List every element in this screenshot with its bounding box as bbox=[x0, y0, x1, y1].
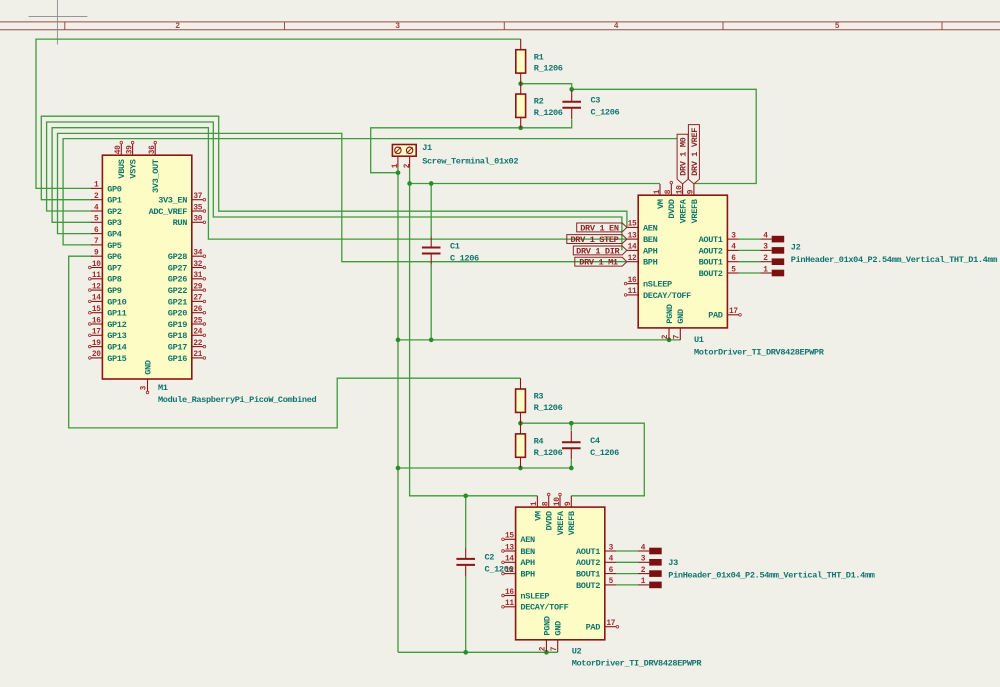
svg-text:14: 14 bbox=[628, 244, 637, 252]
svg-text:AEN: AEN bbox=[520, 535, 535, 545]
svg-text:10: 10 bbox=[92, 261, 101, 269]
svg-text:26: 26 bbox=[193, 306, 202, 314]
svg-text:R_1206: R_1206 bbox=[534, 448, 563, 458]
svg-text:nSLEEP: nSLEEP bbox=[520, 591, 549, 601]
resistor R2 bbox=[516, 84, 563, 128]
junction bbox=[463, 650, 468, 655]
svg-text:BOUT1: BOUT1 bbox=[576, 570, 600, 580]
wire GP2 to U1 APH bbox=[47, 122, 622, 250]
wire R3-R4 junction to U2 VREFB bbox=[521, 423, 645, 496]
svg-text:12: 12 bbox=[628, 255, 637, 263]
svg-text:DVDD: DVDD bbox=[667, 199, 677, 218]
svg-text:RUN: RUN bbox=[173, 218, 188, 228]
net label DRV 1 DIR bbox=[573, 246, 627, 256]
svg-text:6: 6 bbox=[609, 567, 614, 575]
wire GP3 to U1 BEN bbox=[52, 128, 627, 239]
svg-text:GP13: GP13 bbox=[107, 331, 126, 341]
svg-text:VREFA: VREFA bbox=[679, 198, 689, 223]
svg-text:7: 7 bbox=[674, 334, 682, 339]
svg-text:GP9: GP9 bbox=[107, 286, 122, 296]
svg-text:4: 4 bbox=[731, 244, 736, 252]
svg-text:VSYS: VSYS bbox=[129, 159, 139, 178]
wire U1 to J2 bbox=[739, 261, 761, 263]
connector J3 pin header bbox=[638, 544, 875, 588]
svg-text:J1: J1 bbox=[422, 143, 432, 153]
svg-text:PAD: PAD bbox=[708, 311, 723, 321]
resistor R4 bbox=[516, 423, 563, 468]
svg-text:5: 5 bbox=[835, 22, 840, 31]
svg-text:16: 16 bbox=[92, 317, 101, 325]
net label DRV 1 EN bbox=[577, 223, 627, 233]
wire J1 pin2 stub bbox=[409, 168, 411, 184]
wire GP6 to R3 top bbox=[69, 256, 521, 428]
svg-text:7: 7 bbox=[94, 238, 99, 246]
svg-text:GP10: GP10 bbox=[107, 297, 126, 307]
svg-text:GND: GND bbox=[143, 360, 153, 375]
svg-text:2: 2 bbox=[404, 163, 412, 168]
svg-text:24: 24 bbox=[193, 329, 202, 337]
junction bbox=[518, 466, 523, 471]
svg-text:9: 9 bbox=[94, 250, 99, 258]
wire GND to U1 PGND GND bbox=[398, 339, 680, 341]
svg-text:VM: VM bbox=[533, 511, 543, 521]
svg-text:10: 10 bbox=[676, 185, 684, 194]
svg-text:GP15: GP15 bbox=[107, 354, 126, 364]
svg-text:12: 12 bbox=[92, 283, 101, 291]
junction bbox=[569, 421, 574, 426]
svg-text:GP17: GP17 bbox=[168, 343, 187, 353]
svg-text:15: 15 bbox=[628, 221, 637, 229]
svg-text:19: 19 bbox=[92, 340, 101, 348]
svg-text:DVDD: DVDD bbox=[545, 511, 555, 530]
svg-text:10: 10 bbox=[554, 497, 562, 506]
wire GP0 to R1 top bbox=[36, 39, 521, 188]
svg-text:31: 31 bbox=[193, 272, 202, 280]
svg-text:2: 2 bbox=[662, 334, 670, 339]
svg-text:GP8: GP8 bbox=[107, 275, 122, 285]
svg-text:16: 16 bbox=[505, 589, 514, 597]
wire R2 bottom to J1 pin1 bbox=[371, 119, 572, 172]
svg-text:AOUT1: AOUT1 bbox=[576, 547, 600, 557]
svg-text:GP26: GP26 bbox=[168, 275, 187, 285]
svg-text:BPH: BPH bbox=[643, 258, 658, 268]
capacitor C2 bbox=[456, 548, 513, 577]
svg-text:GND: GND bbox=[554, 621, 564, 636]
svg-text:VBUS: VBUS bbox=[117, 159, 127, 178]
svg-text:3V3_OUT: 3V3_OUT bbox=[151, 159, 161, 193]
svg-text:R1: R1 bbox=[534, 52, 544, 62]
svg-text:12: 12 bbox=[505, 567, 514, 575]
wire C2 bottom to GND bbox=[465, 576, 467, 652]
svg-text:R2: R2 bbox=[534, 97, 544, 107]
svg-text:4: 4 bbox=[641, 544, 646, 552]
wire GP1 to U1 AEN bbox=[41, 116, 627, 227]
wire U2 to J3 bbox=[616, 561, 638, 563]
svg-text:GP5: GP5 bbox=[107, 241, 122, 251]
svg-text:M1: M1 bbox=[158, 383, 168, 393]
svg-text:GP18: GP18 bbox=[168, 331, 187, 341]
junction bbox=[429, 338, 434, 343]
svg-text:34: 34 bbox=[193, 250, 202, 258]
svg-text:GP2: GP2 bbox=[107, 207, 122, 217]
svg-text:nSLEEP: nSLEEP bbox=[643, 280, 672, 290]
wire to C1 top bbox=[430, 184, 432, 237]
svg-text:AEN: AEN bbox=[643, 223, 658, 233]
svg-text:5: 5 bbox=[731, 266, 736, 274]
wire GP5 to DRV 1 M0 label bbox=[63, 139, 677, 245]
net label DRV 1 VREF bbox=[688, 125, 699, 184]
net label DRV 1 M1 bbox=[575, 257, 627, 267]
svg-text:6: 6 bbox=[94, 227, 99, 235]
svg-text:32: 32 bbox=[193, 261, 202, 269]
svg-text:3: 3 bbox=[641, 556, 646, 564]
svg-text:2: 2 bbox=[540, 646, 548, 651]
svg-text:GP11: GP11 bbox=[107, 309, 126, 319]
svg-text:VREFB: VREFB bbox=[690, 199, 700, 223]
svg-text:4: 4 bbox=[763, 232, 768, 240]
svg-text:8: 8 bbox=[665, 189, 673, 194]
svg-text:3: 3 bbox=[763, 244, 768, 252]
svg-text:R3: R3 bbox=[534, 392, 544, 402]
wire U1 to J2 bbox=[739, 272, 761, 274]
svg-text:DRV 1 M1: DRV 1 M1 bbox=[579, 258, 618, 268]
resistor R1 bbox=[516, 39, 563, 84]
svg-text:U2: U2 bbox=[572, 646, 582, 656]
svg-text:BOUT2: BOUT2 bbox=[699, 269, 723, 279]
svg-text:1: 1 bbox=[654, 189, 662, 194]
svg-text:27: 27 bbox=[193, 295, 202, 303]
svg-text:DRV 1 EN: DRV 1 EN bbox=[580, 223, 619, 233]
svg-text:DRV 1 M0: DRV 1 M0 bbox=[679, 137, 689, 176]
svg-text:GP6: GP6 bbox=[107, 252, 122, 262]
wire J1 pin1 stub bbox=[397, 168, 399, 173]
svg-text:3: 3 bbox=[609, 544, 614, 552]
wire U2 to J3 bbox=[616, 584, 638, 586]
wire GND2 to R4 C4 bottom bbox=[398, 467, 571, 469]
svg-text:AOUT2: AOUT2 bbox=[576, 558, 600, 568]
svg-text:3V3_EN: 3V3_EN bbox=[158, 196, 187, 206]
svg-text:DRV 1 DIR: DRV 1 DIR bbox=[576, 246, 620, 256]
svg-text:C3: C3 bbox=[591, 96, 601, 106]
svg-text:C_1206: C_1206 bbox=[450, 253, 479, 263]
svg-text:29: 29 bbox=[193, 283, 202, 291]
svg-text:17: 17 bbox=[606, 620, 615, 628]
svg-text:13: 13 bbox=[628, 232, 637, 240]
svg-text:1: 1 bbox=[763, 266, 768, 274]
svg-text:9: 9 bbox=[688, 189, 696, 194]
junction bbox=[569, 87, 574, 92]
svg-text:20: 20 bbox=[92, 351, 101, 359]
junction bbox=[463, 493, 468, 498]
svg-text:GP7: GP7 bbox=[107, 263, 122, 273]
svg-text:30: 30 bbox=[193, 216, 202, 224]
svg-text:APH: APH bbox=[643, 246, 658, 256]
svg-text:15: 15 bbox=[505, 533, 514, 541]
svg-text:GP20: GP20 bbox=[168, 309, 187, 319]
svg-text:GP19: GP19 bbox=[168, 320, 187, 330]
svg-text:14: 14 bbox=[92, 295, 101, 303]
svg-text:BOUT1: BOUT1 bbox=[699, 258, 723, 268]
net label DRV 1 STEP bbox=[567, 235, 627, 245]
svg-text:R4: R4 bbox=[534, 437, 544, 447]
svg-text:11: 11 bbox=[505, 600, 514, 608]
capacitor C4 bbox=[562, 431, 619, 460]
svg-text:GP4: GP4 bbox=[107, 230, 122, 240]
svg-text:GP14: GP14 bbox=[107, 343, 126, 353]
svg-text:VM: VM bbox=[656, 199, 666, 209]
svg-text:3: 3 bbox=[395, 22, 400, 31]
svg-text:4: 4 bbox=[614, 22, 619, 31]
junction bbox=[667, 338, 672, 343]
wire U2 to J3 bbox=[616, 550, 638, 552]
svg-text:35: 35 bbox=[193, 204, 202, 212]
wire VM rail to U2 VM bbox=[410, 184, 538, 496]
svg-text:15: 15 bbox=[92, 306, 101, 314]
junction bbox=[518, 81, 523, 86]
svg-text:GP16: GP16 bbox=[168, 354, 187, 364]
junction bbox=[429, 181, 434, 186]
svg-text:Module_RaspberryPi_PicoW_Combi: Module_RaspberryPi_PicoW_Combined bbox=[158, 395, 317, 405]
junction bbox=[396, 466, 401, 471]
svg-text:GP22: GP22 bbox=[168, 286, 187, 296]
svg-text:GP1: GP1 bbox=[107, 196, 122, 206]
svg-text:PinHeader_01x04_P2.54mm_Vertic: PinHeader_01x04_P2.54mm_Vertical_THT_D1.… bbox=[791, 255, 997, 265]
svg-text:MotorDriver_TI_DRV8428EPWPR: MotorDriver_TI_DRV8428EPWPR bbox=[694, 347, 825, 357]
svg-text:PAD: PAD bbox=[586, 623, 601, 633]
svg-text:2: 2 bbox=[94, 193, 99, 201]
svg-text:BEN: BEN bbox=[643, 235, 658, 245]
svg-text:J3: J3 bbox=[668, 558, 678, 568]
svg-text:1: 1 bbox=[392, 163, 400, 168]
resistor R3 bbox=[516, 378, 563, 423]
svg-text:1: 1 bbox=[531, 501, 539, 506]
svg-text:14: 14 bbox=[505, 556, 514, 564]
svg-text:J2: J2 bbox=[791, 243, 801, 253]
wire J1 pin2 to U1 VM bbox=[410, 183, 660, 185]
op-amp U2 motor driver DRV8428 bbox=[502, 493, 703, 668]
wire C1 bottom to GND bbox=[430, 265, 432, 340]
svg-text:GP21: GP21 bbox=[168, 297, 187, 307]
svg-text:21: 21 bbox=[193, 351, 202, 359]
svg-text:GND: GND bbox=[676, 309, 686, 324]
wire U2 to J3 bbox=[616, 573, 638, 575]
svg-text:40: 40 bbox=[115, 145, 123, 154]
wire to C2 top bbox=[465, 496, 467, 548]
svg-text:PinHeader_01x04_P2.54mm_Vertic: PinHeader_01x04_P2.54mm_Vertical_THT_D1.… bbox=[668, 570, 874, 580]
svg-text:GP12: GP12 bbox=[107, 320, 126, 330]
op-amp U1 motor driver DRV8428 bbox=[624, 181, 824, 357]
svg-text:ADC_VREF: ADC_VREF bbox=[149, 207, 188, 217]
svg-text:16: 16 bbox=[628, 277, 637, 285]
wire GND vertical rail bbox=[397, 173, 399, 653]
svg-text:2: 2 bbox=[175, 22, 180, 31]
svg-text:7: 7 bbox=[551, 646, 559, 651]
svg-text:8: 8 bbox=[543, 501, 551, 506]
svg-text:C_1206: C_1206 bbox=[591, 108, 620, 118]
svg-text:R_1206: R_1206 bbox=[534, 403, 563, 413]
svg-text:DRV 1 VREF: DRV 1 VREF bbox=[690, 128, 700, 176]
wire GND to U2 PGND GND bbox=[398, 651, 558, 653]
svg-text:AOUT2: AOUT2 bbox=[699, 246, 723, 256]
svg-text:BPH: BPH bbox=[520, 570, 535, 580]
svg-text:VREFB: VREFB bbox=[567, 511, 577, 535]
svg-text:2: 2 bbox=[763, 255, 768, 263]
svg-text:MotorDriver_TI_DRV8428EPWPR: MotorDriver_TI_DRV8428EPWPR bbox=[572, 659, 703, 669]
svg-text:13: 13 bbox=[505, 544, 514, 552]
svg-text:DECAY/TOFF: DECAY/TOFF bbox=[520, 603, 568, 613]
svg-text:U1: U1 bbox=[694, 335, 704, 345]
wire U1 to J2 bbox=[739, 238, 761, 240]
wire GP4 to U1 BPH bbox=[58, 133, 628, 261]
cursor crosshair bbox=[29, 0, 88, 45]
svg-text:Screw_Terminal_01x02: Screw_Terminal_01x02 bbox=[422, 156, 518, 166]
svg-text:GP3: GP3 bbox=[107, 218, 122, 228]
wire U1 to J2 bbox=[739, 249, 761, 251]
svg-text:4: 4 bbox=[94, 204, 99, 212]
svg-text:PGND: PGND bbox=[665, 304, 675, 323]
module M1 Raspberry Pi Pico W bbox=[89, 141, 317, 405]
svg-text:C4: C4 bbox=[590, 436, 600, 446]
junction bbox=[569, 466, 574, 471]
svg-text:PGND: PGND bbox=[542, 616, 552, 635]
svg-text:R_1206: R_1206 bbox=[534, 64, 563, 74]
svg-text:GP0: GP0 bbox=[107, 184, 122, 194]
wire C4 bottom to GND bbox=[570, 460, 572, 468]
svg-text:5: 5 bbox=[94, 216, 99, 224]
connector J2 pin header bbox=[760, 232, 997, 276]
svg-text:2: 2 bbox=[641, 567, 646, 575]
svg-text:4: 4 bbox=[609, 556, 614, 564]
svg-text:6: 6 bbox=[731, 255, 736, 263]
svg-text:C_1206: C_1206 bbox=[590, 448, 619, 458]
svg-text:BEN: BEN bbox=[520, 547, 535, 557]
svg-text:3: 3 bbox=[141, 385, 149, 390]
svg-text:C1: C1 bbox=[450, 241, 460, 251]
junction bbox=[407, 181, 412, 186]
svg-text:BOUT2: BOUT2 bbox=[576, 581, 600, 591]
junction bbox=[396, 170, 401, 175]
svg-text:25: 25 bbox=[193, 317, 202, 325]
svg-text:11: 11 bbox=[628, 288, 637, 296]
svg-text:3: 3 bbox=[731, 232, 736, 240]
svg-text:17: 17 bbox=[729, 308, 738, 316]
svg-text:1: 1 bbox=[641, 578, 646, 586]
svg-text:VREFA: VREFA bbox=[556, 510, 566, 535]
svg-text:39: 39 bbox=[126, 145, 134, 154]
svg-text:R_1206: R_1206 bbox=[534, 108, 563, 118]
svg-text:DRV 1 STEP: DRV 1 STEP bbox=[571, 235, 619, 245]
svg-text:DECAY/TOFF: DECAY/TOFF bbox=[643, 291, 691, 301]
wire to C4 top bbox=[570, 423, 572, 431]
svg-text:AOUT1: AOUT1 bbox=[699, 235, 723, 245]
wire VREF1 net to U1 VREFB bbox=[572, 89, 757, 183]
connector J1 screw terminal bbox=[392, 143, 518, 168]
svg-text:1: 1 bbox=[94, 182, 99, 190]
junction bbox=[518, 421, 523, 426]
svg-text:17: 17 bbox=[92, 329, 101, 337]
svg-text:C2: C2 bbox=[485, 553, 495, 563]
junction bbox=[396, 338, 401, 343]
wire R1-R2 junction to C3 bbox=[521, 84, 572, 90]
svg-text:9: 9 bbox=[565, 501, 573, 506]
sheet frame ruler bbox=[0, 22, 1000, 31]
junction bbox=[518, 125, 523, 130]
svg-text:GP28: GP28 bbox=[168, 252, 187, 262]
svg-text:5: 5 bbox=[609, 578, 614, 586]
net label DRV 1 M0 bbox=[677, 134, 688, 184]
svg-text:36: 36 bbox=[149, 145, 157, 154]
svg-text:GP27: GP27 bbox=[168, 263, 187, 273]
svg-text:11: 11 bbox=[92, 272, 101, 280]
svg-text:22: 22 bbox=[193, 340, 202, 348]
capacitor C3 bbox=[562, 91, 619, 120]
svg-text:APH: APH bbox=[520, 558, 535, 568]
junction bbox=[544, 650, 549, 655]
capacitor C1 bbox=[422, 236, 479, 265]
svg-text:37: 37 bbox=[193, 193, 202, 201]
